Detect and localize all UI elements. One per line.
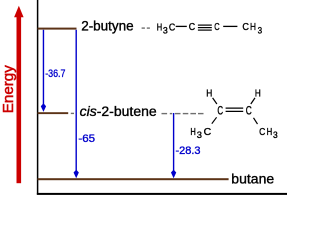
cis-2-butene structure: right C [246, 105, 252, 117]
value label -36.7 [45, 68, 65, 80]
level line cis-2-butene [38, 112, 69, 114]
2-butyne structure: C [189, 21, 196, 33]
label 2-butyne [81, 18, 134, 33]
svg-text:C: C [246, 105, 252, 117]
2-butyne structure: H3C [157, 21, 176, 36]
cis-2-butene structure: CH3 bottom-right [259, 126, 278, 141]
svg-text:3: 3 [197, 130, 202, 141]
svg-text:C: C [259, 126, 266, 138]
svg-text:-65: -65 [78, 133, 95, 145]
cis-2-butene structure: left C [217, 105, 223, 117]
svg-text:C: C [217, 105, 223, 117]
cis-2-butene structure: H top-left [206, 87, 212, 99]
svg-text:C: C [214, 21, 220, 33]
2-butyne structure: C [214, 21, 220, 33]
2-butyne structure: bond C-CH3 [223, 25, 237, 27]
svg-text:C: C [242, 21, 249, 33]
label cis-2-butene [80, 104, 157, 119]
svg-text:H: H [250, 21, 256, 33]
2-butyne structure: CH3 [242, 21, 262, 36]
svg-text:C: C [189, 21, 196, 33]
dashed leader after cis-2-butene line [71, 112, 74, 114]
cis-2-butene structure: bond H to left C [213, 98, 217, 104]
svg-text:3: 3 [258, 25, 263, 36]
dashed leader to cis structure [162, 113, 204, 115]
svg-text:-28.3: -28.3 [176, 145, 201, 157]
blue arrow -65 [74, 30, 79, 178]
svg-text:3: 3 [163, 25, 168, 36]
svg-text:Energy: Energy [0, 65, 17, 114]
2-butyne structure: bond H3C-C [176, 25, 187, 27]
svg-text:C: C [169, 21, 176, 33]
svg-text:3: 3 [273, 130, 278, 141]
cis-2-butene structure: H3C bottom-left [190, 126, 211, 141]
svg-text:H: H [206, 87, 212, 99]
svg-text:C: C [204, 126, 212, 138]
svg-text:H: H [190, 126, 195, 138]
svg-text:-36.7: -36.7 [45, 68, 65, 80]
2-butyne structure: triple bond [198, 25, 212, 30]
svg-text:cis-2-butene: cis-2-butene [80, 104, 157, 119]
red energy arrow head [14, 6, 24, 17]
energy axis vertical line [37, 0, 39, 195]
dashed leader after 2-butyne [142, 27, 150, 29]
svg-text:butane: butane [231, 171, 274, 186]
svg-text:H: H [267, 126, 273, 138]
svg-text:H: H [255, 87, 261, 99]
cis-2-butene structure: H top-right [255, 87, 261, 99]
svg-text:H: H [157, 21, 162, 33]
value label -65 [78, 133, 95, 145]
energy axis bottom horizontal line [37, 193, 287, 195]
value label -28.3 [176, 145, 201, 157]
cis-2-butene structure: bond right C to CH3 [254, 118, 258, 124]
Energy label [0, 65, 17, 114]
cis-2-butene structure: bond left C to H3C [212, 117, 217, 123]
cis-2-butene structure: bond right C to H [251, 98, 255, 104]
svg-text:2-butyne: 2-butyne [81, 18, 134, 33]
blue arrow -28.3 [171, 113, 176, 178]
cis-2-butene structure: double bond [226, 108, 244, 111]
red energy arrow shaft [17, 16, 22, 184]
level line 2-butyne [38, 28, 77, 30]
blue arrow -36.7 [41, 30, 46, 112]
level line butane [38, 178, 229, 180]
label butane [231, 171, 274, 186]
